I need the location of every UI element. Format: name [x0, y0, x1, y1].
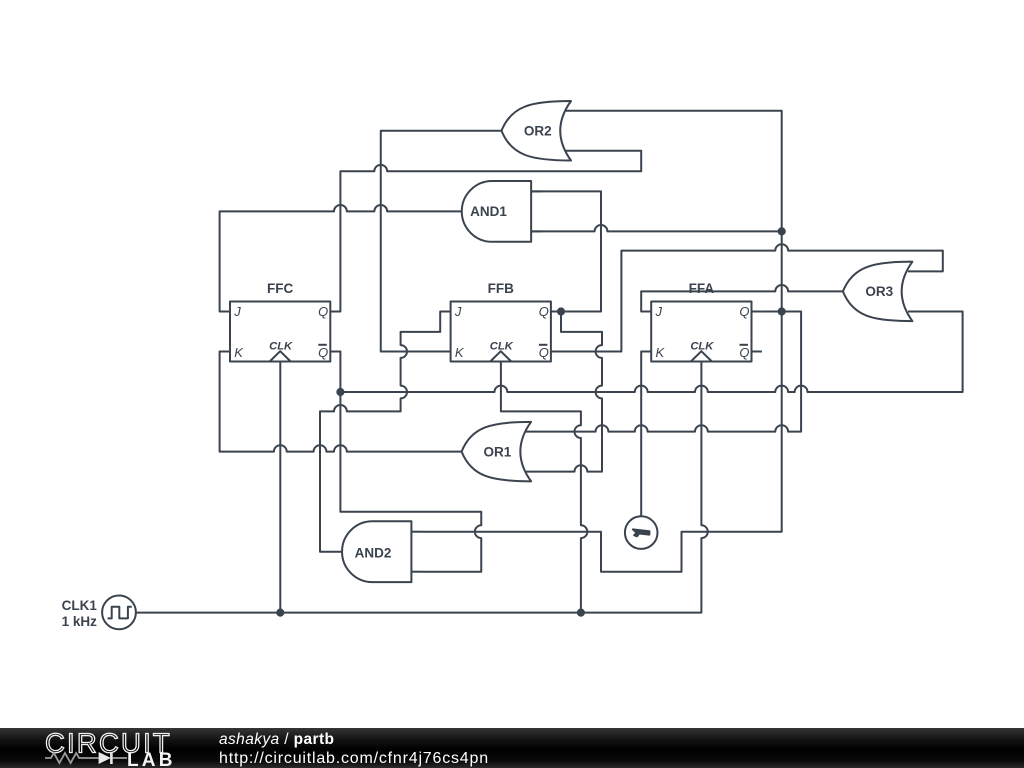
OR gate OR1: [462, 422, 531, 482]
wire FFC Qbar junction to AND2 input 2: [340, 392, 481, 572]
svg-text:Q: Q: [318, 345, 328, 360]
wire FFB Qbar to OR3 input 1: [561, 244, 943, 351]
junction dot (781.7,231.4): [779, 228, 785, 234]
svg-text:J: J: [454, 304, 462, 319]
svg-text:J: J: [233, 304, 241, 319]
wire FFA Q junction to OR1 input 1: [526, 312, 801, 432]
constant logic 1 source: [625, 516, 658, 549]
svg-text:K: K: [234, 345, 244, 360]
wire OR2 input 1 / FFA Q net down to AND2 input 1: [422, 111, 782, 572]
svg-text:Q: Q: [318, 304, 328, 319]
svg-text:CLK1: CLK1: [62, 598, 98, 613]
junction dot (781.7,311.5): [779, 308, 785, 314]
svg-text:OR3: OR3: [865, 284, 893, 299]
wire OR3 output to FFA J input: [641, 285, 843, 312]
wire FFB Q to AND1 input 1: [531, 191, 601, 311]
OR gate OR3: [843, 262, 913, 322]
wire FFC Q to OR2 input 2: [330, 151, 641, 312]
svg-text:AND1: AND1: [470, 204, 507, 219]
svg-text:OR1: OR1: [484, 445, 512, 460]
flip-flop FFB: [440, 281, 561, 362]
svg-text:CLK: CLK: [490, 341, 514, 353]
wire constant source to FFA K input: [641, 352, 651, 517]
footer bar: [0, 728, 1024, 768]
svg-text:FFC: FFC: [267, 281, 293, 296]
svg-text:K: K: [455, 345, 465, 360]
junction dot (340.4,392): [337, 389, 343, 395]
resistor and diode squiggle: [45, 753, 99, 763]
wire OR1 output to FFC K input: [220, 352, 462, 452]
AND gate AND2: [342, 521, 422, 582]
svg-text:Q: Q: [739, 345, 749, 360]
wire FFB Q to OR1 input 2: [526, 312, 602, 472]
junction dot (580.9,612.6): [578, 610, 584, 616]
svg-text:Q: Q: [739, 304, 749, 319]
wire FFC Qbar junction to OR3 input 2: [340, 312, 962, 393]
wire FFC Qbar to junction: [330, 352, 340, 393]
footer title text: [219, 730, 489, 768]
flip-flop FFC: [220, 281, 341, 362]
svg-text:Q: Q: [539, 304, 549, 319]
flip-flop FFA: [641, 281, 762, 362]
wire FFB CLK to clock net: [501, 362, 587, 613]
svg-text:Q: Q: [539, 345, 549, 360]
AND gate AND1: [462, 181, 542, 242]
svg-text:J: J: [655, 304, 663, 319]
wire FFA Q to junction: [762, 311, 782, 313]
svg-text:1 kHz: 1 kHz: [62, 614, 98, 629]
wire AND1 input 2 to FFA Q net: [531, 225, 782, 231]
wire FFC CLK to clock net: [279, 362, 281, 613]
svg-text:CLK: CLK: [269, 341, 293, 353]
junction dot (561,311.5): [558, 308, 564, 314]
junction dot (280.3,612.6): [277, 610, 283, 616]
svg-text:FFA: FFA: [689, 281, 715, 296]
wire CLK1 source to FFA CLK: [136, 362, 708, 613]
svg-text:LAB: LAB: [127, 750, 176, 768]
CircuitLab logo: [30, 728, 230, 768]
clock source CLK1: [62, 596, 136, 630]
OR gate OR2: [502, 101, 572, 161]
wire AND2 output to FFB J input: [320, 312, 451, 552]
wire AND1 output to FFC J input: [220, 205, 462, 312]
svg-text:OR2: OR2: [524, 124, 552, 139]
svg-text:AND2: AND2: [355, 546, 392, 561]
svg-text:FFB: FFB: [488, 281, 514, 296]
wire OR2 output to FFB K input: [381, 131, 502, 352]
svg-text:CLK: CLK: [690, 341, 714, 353]
svg-text:K: K: [656, 345, 666, 360]
